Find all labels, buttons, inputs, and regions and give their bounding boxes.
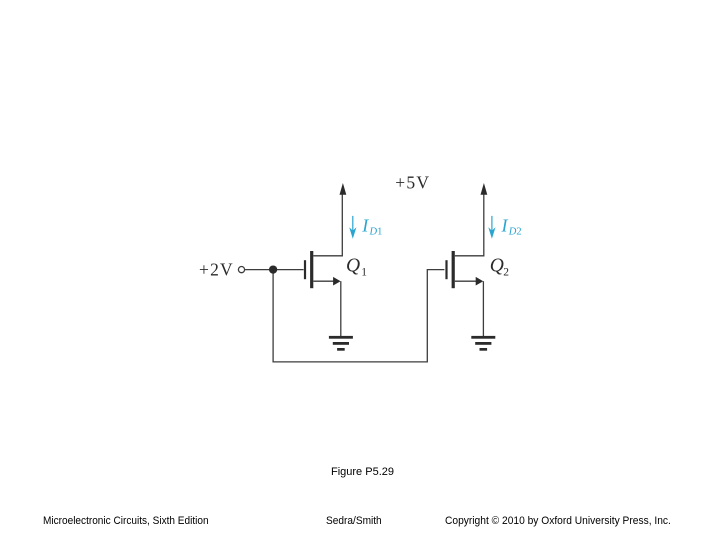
svg-text:+5V: +5V [395, 173, 430, 193]
svg-text:I: I [501, 216, 509, 236]
svg-text:+2V: +2V [199, 259, 234, 279]
svg-text:I: I [361, 216, 369, 236]
svg-text:1: 1 [361, 266, 367, 278]
svg-text:Q: Q [346, 256, 360, 277]
svg-text:1: 1 [377, 227, 382, 238]
svg-text:2: 2 [516, 227, 521, 238]
svg-text:Q: Q [490, 256, 504, 277]
svg-text:2: 2 [503, 266, 509, 278]
